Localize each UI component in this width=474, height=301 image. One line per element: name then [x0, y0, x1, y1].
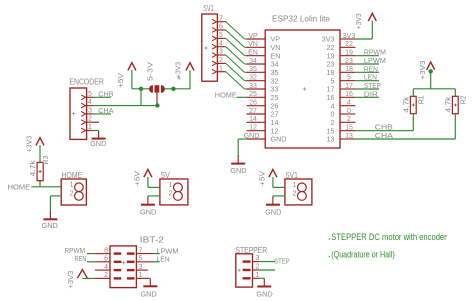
- svg-text:SV1: SV1: [203, 4, 214, 13]
- svg-text:4: 4: [347, 99, 351, 106]
- svg-text:5: 5: [139, 256, 143, 263]
- net label LEN: [157, 255, 170, 264]
- svg-text:CHA: CHA: [375, 131, 393, 140]
- connector IBT-2 title: [140, 235, 165, 244]
- svg-text:14: 14: [249, 116, 257, 123]
- svg-text:2: 2: [104, 272, 108, 279]
- connector 5V1 title: [286, 171, 298, 180]
- svg-text:26: 26: [249, 99, 257, 106]
- svg-text:STEPPER DC motor with encoder: STEPPER DC motor with encoder: [331, 232, 447, 243]
- svg-text:18: 18: [345, 66, 353, 73]
- label R1 name: [419, 95, 426, 104]
- net label REN: [75, 254, 87, 263]
- supply +3V3 arrow top: [368, 13, 376, 21]
- svg-text:4: 4: [88, 99, 92, 106]
- wire ENCODER pin 4 to jumper center: [93, 105, 157, 107]
- net label HOME left: [8, 183, 31, 192]
- svg-text:34: 34: [249, 58, 257, 65]
- svg-text:R3: R3: [43, 155, 50, 164]
- svg-text:4.7k: 4.7k: [446, 96, 453, 113]
- label +3V3 vertical above R3: [24, 136, 33, 153]
- wire +5V to 5V1 pin1: [273, 186, 285, 188]
- label +3V3 vertical top: [354, 13, 363, 29]
- svg-text:7: 7: [219, 15, 223, 22]
- label +5V vertical: [116, 73, 125, 88]
- svg-text:6: 6: [104, 256, 108, 263]
- svg-text:7: 7: [139, 247, 143, 254]
- svg-text:3: 3: [256, 255, 260, 262]
- label R1 value 4.7k: [404, 96, 411, 113]
- svg-text:8: 8: [104, 247, 108, 254]
- wire RPWM to IBT-2 pin 8: [87, 253, 95, 255]
- svg-text:2: 2: [88, 116, 92, 123]
- svg-text:2: 2: [347, 116, 351, 123]
- svg-text:1: 1: [293, 182, 297, 189]
- ground below HOME connector: [42, 211, 59, 230]
- ground below STEPPER: [256, 279, 273, 298]
- svg-text:23: 23: [345, 58, 353, 65]
- supply +3V3 arrow at IBT-2 pin 2: [77, 270, 95, 279]
- svg-text:13: 13: [345, 133, 353, 140]
- svg-text:GND: GND: [271, 135, 287, 144]
- connector STEPPER: [236, 254, 253, 287]
- svg-text:1: 1: [169, 182, 173, 189]
- SV1 pin numbers: [219, 15, 223, 72]
- svg-text:0: 0: [347, 108, 351, 115]
- svg-text:3V3: 3V3: [343, 33, 356, 40]
- label R3 name: [43, 155, 50, 164]
- connector 5V: [160, 179, 188, 205]
- svg-text:19: 19: [345, 49, 353, 56]
- svg-text:+3V3: +3V3: [24, 136, 33, 153]
- svg-text:R2: R2: [461, 95, 468, 104]
- svg-text:ENCODER: ENCODER: [69, 78, 104, 87]
- svg-text:22: 22: [345, 41, 353, 48]
- supply +3V3 arrow above R1 R2: [427, 62, 435, 89]
- net label CHA right: [375, 131, 393, 140]
- svg-text:+5V: +5V: [133, 171, 142, 186]
- net label CHB right: [375, 123, 393, 132]
- net label RPWM: [65, 246, 86, 255]
- wire STEP from STEPPER pin 3: [259, 261, 275, 263]
- wire 5V pin2 to ground: [148, 196, 160, 198]
- svg-text:2: 2: [70, 190, 74, 197]
- svg-text:+3V3: +3V3: [174, 62, 183, 78]
- resistor R1: [410, 96, 416, 113]
- junction dot: [139, 87, 143, 91]
- 5V pin numbers: [169, 182, 173, 198]
- ground below ENCODER: [90, 131, 107, 148]
- wire STEPPER pin 2: [259, 269, 275, 271]
- net label CHA: [98, 106, 113, 115]
- svg-text:6: 6: [219, 24, 223, 31]
- svg-text:2: 2: [169, 191, 173, 198]
- svg-text:VN: VN: [248, 41, 258, 48]
- IBT-2 left pin numbers: [104, 247, 108, 279]
- note text STEPPER DC motor with encoder: [329, 232, 448, 243]
- STEPPER pin stubs: [253, 262, 260, 279]
- junction dot right of jumper: [171, 87, 175, 91]
- label R2 value 4.7k: [446, 96, 453, 113]
- ESP32 outside right pin labels: [343, 33, 356, 140]
- HOME pin numbers: [70, 182, 74, 198]
- wire CHA ESP32 pin13 to R2: [355, 138, 455, 140]
- ESP32 inside left pin names: [271, 35, 287, 144]
- wire ENCODER pin 2 stub: [93, 121, 99, 123]
- svg-text:1: 1: [88, 124, 92, 131]
- svg-text:3: 3: [88, 107, 92, 114]
- label +3V3 vertical above R1 R2: [418, 61, 427, 80]
- svg-text:5: 5: [88, 91, 92, 98]
- label +3V3 vertical at IBT-2: [66, 271, 75, 289]
- svg-text:DIR: DIR: [364, 89, 379, 98]
- svg-text:(Quadrature or Hall): (Quadrature or Hall): [331, 250, 394, 261]
- svg-text:ESP32 Lolin lite: ESP32 Lolin lite: [272, 14, 331, 23]
- svg-text:2: 2: [256, 264, 260, 271]
- ENCODER pin numbers: [88, 91, 92, 131]
- svg-text:5-3V: 5-3V: [146, 62, 155, 81]
- label +3V3 vertical: [174, 62, 183, 78]
- net label CHB: [98, 89, 113, 98]
- label 5-3V vertical: [146, 62, 155, 81]
- net label LPWM: [157, 246, 179, 255]
- wire CHB from ENCODER pin 5: [93, 96, 111, 98]
- svg-text:+3V3: +3V3: [418, 61, 427, 80]
- ground below ESP32: [230, 155, 247, 175]
- supply +3V3 arrow above R3: [36, 138, 44, 163]
- wire R3 bottom to HOME net: [39, 181, 41, 187]
- svg-text:32: 32: [249, 74, 257, 81]
- svg-text:5: 5: [219, 32, 223, 39]
- svg-text:VP: VP: [248, 33, 258, 40]
- STEPPER pin numbers: [256, 255, 260, 279]
- svg-text:4: 4: [219, 40, 223, 47]
- wire 5V1 pin2 to ground: [273, 196, 285, 198]
- svg-text:4: 4: [104, 264, 108, 271]
- wire STEPPER pin 1 to ground: [259, 278, 264, 279]
- connector ENCODER title: [69, 78, 104, 87]
- ESP32 inside right pin names: [322, 35, 335, 144]
- ESP32 right pin stubs: [340, 39, 355, 139]
- svg-text:1: 1: [139, 272, 143, 279]
- svg-text:HOME: HOME: [215, 91, 237, 100]
- label R2 name: [461, 95, 468, 104]
- wires SV1 to ESP32 (VP VN EN 34 35 32 33): [226, 22, 248, 89]
- ENCODER pin stubs: [87, 97, 93, 130]
- connector HOME: [61, 179, 86, 205]
- wire LEN from IBT-2 pin 5: [154, 261, 160, 263]
- supply +3V3 arrow right of jumper: [186, 63, 194, 71]
- IBT-2 right pin stubs: [136, 254, 154, 279]
- svg-text:STEP: STEP: [274, 257, 290, 266]
- svg-text:GND: GND: [230, 166, 247, 175]
- resistor R3: [37, 162, 43, 180]
- net label STEP: [274, 257, 290, 266]
- connector STEPPER title: [236, 246, 268, 255]
- wire jumper down-branch: [140, 89, 142, 106]
- svg-text:GND: GND: [256, 289, 273, 298]
- svg-text:+3V3: +3V3: [354, 13, 363, 29]
- svg-text:EN: EN: [248, 49, 258, 56]
- svg-text:R1: R1: [419, 95, 426, 104]
- svg-text:35: 35: [249, 66, 257, 73]
- wire CHA from ENCODER pin 3: [93, 113, 111, 115]
- svg-text:15: 15: [345, 124, 353, 131]
- connector 5V1: [285, 179, 312, 205]
- svg-text:3: 3: [219, 49, 223, 56]
- svg-text:HOME: HOME: [8, 183, 31, 192]
- connector IBT-2: [110, 246, 136, 288]
- wire REN to IBT-2 pin 6: [87, 261, 95, 263]
- label +5V vertical at 5V1 connector: [257, 171, 266, 186]
- svg-text:REN: REN: [75, 254, 87, 263]
- svg-text:3: 3: [139, 264, 143, 271]
- svg-text:4.7k: 4.7k: [404, 96, 411, 113]
- svg-text:17: 17: [345, 83, 353, 90]
- svg-text:12: 12: [249, 124, 257, 131]
- connector ENCODER: [70, 88, 87, 139]
- wire R1 bottom to CHB: [412, 114, 414, 131]
- connector HOME title: [62, 171, 83, 180]
- wire ENCODER pin 1 to ground: [93, 131, 99, 132]
- connector SV1: [202, 14, 218, 81]
- ground below 5V1 connector: [265, 197, 282, 216]
- wire HOME to connector: [31, 186, 61, 188]
- svg-text:25: 25: [249, 91, 257, 98]
- svg-text:IBT-2: IBT-2: [140, 235, 165, 244]
- junction dot jumper center to pin4 net: [155, 103, 159, 107]
- svg-text:1: 1: [219, 65, 223, 72]
- wire R2 bottom to CHA: [454, 114, 456, 139]
- svg-text:GND: GND: [42, 221, 59, 230]
- 5V1 pin numbers: [293, 182, 297, 198]
- IBT-2 right pin numbers: [139, 247, 143, 279]
- wire +5V to jumper: [132, 88, 149, 90]
- supply +5V arrow left of jumper: [128, 63, 136, 89]
- svg-text:2: 2: [293, 191, 297, 198]
- svg-text:+5V: +5V: [116, 73, 125, 88]
- wire IBT-2 pin 1 to ground: [149, 278, 150, 279]
- svg-text:GND: GND: [265, 207, 282, 216]
- wire LPWM from IBT-2 pin 7: [154, 253, 160, 255]
- wire ESP32 GND to ground: [238, 139, 246, 156]
- label R3 value 4.7k: [30, 160, 37, 177]
- net labels RPWM LPWM REN LEN STEP DIR: [364, 48, 386, 99]
- svg-text:1: 1: [256, 272, 260, 279]
- wires ESP32 right nets RPWM LPWM REN LEN STEP DIR: [355, 56, 379, 98]
- wire jumper right to +3V3: [165, 70, 190, 89]
- label +5V vertical at 5V connector: [133, 171, 142, 186]
- svg-text:2: 2: [219, 57, 223, 64]
- wire HOME to ESP32 pin 25: [237, 96, 247, 98]
- wire +5V to 5V pin1: [148, 186, 160, 188]
- svg-text:GND: GND: [140, 207, 157, 216]
- svg-text:+3V3: +3V3: [66, 271, 75, 289]
- supply +5V arrow at 5V connector: [144, 169, 152, 187]
- solder jumper SJ1 (5-3V select): [149, 76, 181, 104]
- junction dot under +3V3: [429, 69, 433, 73]
- wire ESP32 3V3 to +3V3: [355, 21, 372, 39]
- note text Quadrature or Hall: [329, 250, 395, 261]
- ground below 5V connector: [140, 197, 157, 216]
- svg-text:4.7k: 4.7k: [30, 160, 37, 177]
- net label HOME at ESP32 pin 25: [215, 91, 237, 100]
- svg-text:GND: GND: [90, 139, 107, 148]
- wire CHB ESP32 pin15 to R1: [355, 130, 413, 132]
- ESP32 left pin stubs: [247, 39, 266, 139]
- ground below IBT-2: [140, 279, 157, 298]
- svg-text:27: 27: [249, 108, 257, 115]
- connector 5V title: [161, 171, 171, 180]
- wire +3V3 rail to R1 R2 tops: [413, 89, 455, 97]
- svg-text:33: 33: [249, 83, 257, 90]
- svg-text:GND: GND: [140, 289, 157, 298]
- svg-text:13: 13: [327, 135, 335, 144]
- IBT-2 left pin stubs: [95, 254, 110, 279]
- supply +5V arrow at 5V1 connector: [269, 169, 277, 187]
- IC U1 ESP32 body: [265, 30, 340, 148]
- svg-text:+5V: +5V: [257, 171, 266, 186]
- svg-text:1: 1: [70, 182, 74, 189]
- connector SV1 title: [203, 4, 214, 13]
- wire HOME pin2 to ground: [50, 196, 61, 212]
- svg-text:16: 16: [345, 91, 353, 98]
- IC U1 ESP32 Lolin lite title: [272, 14, 331, 23]
- ESP32 outside left pin labels: [244, 33, 260, 140]
- SV1 pin stubs: [217, 22, 225, 72]
- resistor R2: [452, 96, 458, 113]
- svg-text:5: 5: [347, 74, 351, 81]
